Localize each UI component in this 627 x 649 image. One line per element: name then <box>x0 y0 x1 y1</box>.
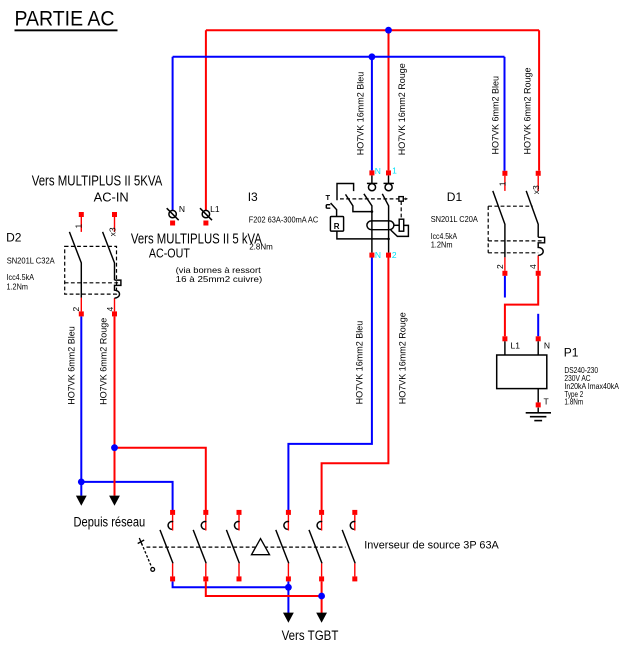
wire blue changeover pole4 stub <box>287 582 289 588</box>
svg-text:2: 2 <box>71 307 81 312</box>
wire blue branch to changeover pole 1 <box>81 482 172 510</box>
wire blue D1 pole1 bottom stub <box>504 276 506 298</box>
svg-text:2.8Nm: 2.8Nm <box>249 241 273 251</box>
svg-text:T: T <box>544 397 549 407</box>
connector L1 to MULTIPLUS AC-OUT <box>200 208 212 220</box>
junction dot red rail / I3 <box>385 27 392 34</box>
wire blue drop to D1 pole1 <box>504 57 506 171</box>
dashed mechanism bus <box>147 546 346 548</box>
svg-text:Depuis réseau: Depuis réseau <box>74 514 146 529</box>
svg-text:1.8Nm: 1.8Nm <box>564 396 583 406</box>
svg-text:T: T <box>326 193 331 202</box>
svg-text:Icc4.5kA: Icc4.5kA <box>7 272 35 282</box>
svg-text:1: 1 <box>497 181 507 186</box>
delta symbol <box>252 539 270 555</box>
wire red shaft to TGBT arrow <box>321 596 323 614</box>
wire red top rail <box>206 29 539 31</box>
pole 1 <box>160 510 175 582</box>
svg-text:Vers MULTIPLUS II 5 kVA: Vers MULTIPLUS II 5 kVA <box>131 230 262 247</box>
svg-text:SN201L C20A: SN201L C20A <box>431 214 478 224</box>
svg-text:1.2Nm: 1.2Nm <box>7 281 28 291</box>
wire red D2 pole2 down to Depuis reseau arrow <box>114 316 116 495</box>
svg-text:PARTIE AC: PARTIE AC <box>15 6 115 30</box>
wire red D1 pole2 crossover to P1 L1 <box>505 276 538 337</box>
wire blue I3 N output to changeover pole 4 <box>288 258 372 511</box>
svg-text:AC-IN: AC-IN <box>94 190 129 204</box>
arrow Vers TGBT red <box>316 613 327 623</box>
junction dot red TGBT <box>318 593 325 600</box>
svg-text:N: N <box>544 341 550 351</box>
wire blue drop to I3 pole N <box>371 57 373 171</box>
ground <box>526 413 551 421</box>
svg-text:Vers TGBT: Vers TGBT <box>282 628 339 643</box>
junction dot blue TGBT <box>285 584 292 591</box>
pole 5 <box>309 510 324 582</box>
svg-text:2: 2 <box>392 250 397 260</box>
lever <box>139 538 142 545</box>
svg-text:4: 4 <box>528 264 538 269</box>
connector N to MULTIPLUS AC-OUT <box>167 208 179 220</box>
svg-text:HO7VK 16mm2 Rouge: HO7VK 16mm2 Rouge <box>397 63 407 155</box>
wire red I3 output 2 to changeover pole 5 <box>322 258 389 511</box>
svg-text:Inverseur de source 3P 63A: Inverseur de source 3P 63A <box>364 540 499 552</box>
svg-text:1: 1 <box>74 224 84 229</box>
surge protector P1 DS240-230 <box>497 336 551 420</box>
wire blue top rail <box>173 56 505 58</box>
wire red drop to L1 AC-OUT <box>205 30 207 210</box>
wire blue stub to P1 N <box>537 314 539 337</box>
svg-text:D1: D1 <box>447 190 463 204</box>
svg-text:AC-OUT: AC-OUT <box>149 247 190 261</box>
svg-text:HO7VK 6mm2 Bleu: HO7VK 6mm2 Bleu <box>66 326 76 405</box>
breaker D2 SN201L C32A <box>65 212 121 316</box>
wire blue shaft to TGBT arrow <box>287 587 289 613</box>
svg-text:P1: P1 <box>564 346 579 360</box>
wire red branch to changeover pole 2 <box>115 448 206 510</box>
pole 2 <box>193 510 208 582</box>
svg-text:HO7VK 6mm2 Rouge: HO7VK 6mm2 Rouge <box>99 318 109 405</box>
svg-text:1.2Nm: 1.2Nm <box>431 240 453 250</box>
wire blue changeover pole1 to output <box>173 582 289 588</box>
svg-text:N: N <box>375 250 381 260</box>
svg-text:HO7VK 16mm2 Bleu: HO7VK 16mm2 Bleu <box>355 321 365 405</box>
changeover switch Inverseur de source 3P 63A <box>138 538 346 571</box>
wire red changeover pole5 stub <box>321 582 323 597</box>
svg-text:N: N <box>179 204 185 214</box>
breaker D1 SN201L C20A <box>488 171 544 276</box>
wire blue D2 pole1 down to Depuis reseau arrow <box>80 316 82 495</box>
svg-text:Vers MULTIPLUS II 5KVA: Vers MULTIPLUS II 5KVA <box>32 173 163 190</box>
RCD I3 F202 63A-300mA AC <box>326 166 409 260</box>
svg-text:SN201L C32A: SN201L C32A <box>7 256 55 266</box>
title PARTIE AC <box>15 6 118 31</box>
junction dot blue rail / I3 <box>369 53 376 60</box>
svg-text:I3: I3 <box>248 190 258 204</box>
svg-text:4: 4 <box>105 307 115 312</box>
arrow Vers TGBT blue <box>283 613 294 623</box>
junction dot red D2 branch <box>111 444 118 451</box>
svg-text:F202 63A-300mA AC: F202 63A-300mA AC <box>249 215 318 225</box>
svg-text:2: 2 <box>495 264 505 269</box>
junction dot blue D2 branch <box>78 479 85 486</box>
pole 6 <box>342 510 357 582</box>
wire blue drop to N AC-OUT <box>172 57 174 211</box>
pole 3 <box>226 510 241 582</box>
wire red drop to D1 pole2 <box>538 30 540 171</box>
svg-text:16 à 25mm2 cuivre): 16 à 25mm2 cuivre) <box>176 274 263 284</box>
svg-text:x3: x3 <box>531 185 541 194</box>
wire red drop to I3 pole 1 <box>388 30 390 170</box>
pole 4 <box>276 510 291 582</box>
arrow Depuis reseau blue <box>76 496 87 506</box>
svg-text:1: 1 <box>392 166 397 176</box>
svg-text:HO7VK 6mm2 Rouge: HO7VK 6mm2 Rouge <box>522 67 532 154</box>
wire red changeover pole2 to output <box>206 582 322 597</box>
svg-text:N: N <box>375 166 381 176</box>
svg-text:R: R <box>334 222 340 231</box>
svg-text:D2: D2 <box>6 230 22 244</box>
svg-text:x3: x3 <box>108 227 118 236</box>
svg-text:HO7VK 16mm2 Bleu: HO7VK 16mm2 Bleu <box>355 72 365 156</box>
svg-text:HO7VK 16mm2 Rouge: HO7VK 16mm2 Rouge <box>397 312 407 404</box>
svg-text:L1: L1 <box>210 204 220 214</box>
svg-text:L1: L1 <box>511 341 521 351</box>
svg-text:HO7VK 6mm2 Bleu: HO7VK 6mm2 Bleu <box>490 76 500 155</box>
arrow Depuis reseau red <box>109 496 120 506</box>
